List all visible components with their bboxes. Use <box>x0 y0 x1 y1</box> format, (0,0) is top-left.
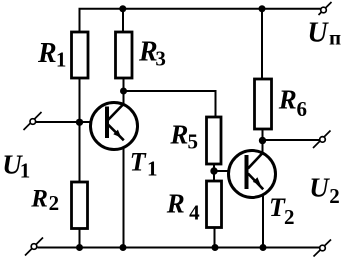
svg-text:2: 2 <box>329 184 340 208</box>
svg-text:3: 3 <box>155 47 166 71</box>
svg-text:5: 5 <box>188 130 199 154</box>
svg-text:T: T <box>130 147 147 176</box>
svg-text:1: 1 <box>147 156 158 180</box>
svg-text:R: R <box>278 85 297 115</box>
svg-text:U: U <box>307 18 329 49</box>
svg-text:1: 1 <box>56 48 67 72</box>
svg-text:6: 6 <box>297 97 308 121</box>
svg-text:R: R <box>169 120 188 150</box>
svg-text:4: 4 <box>189 201 200 225</box>
svg-text:п: п <box>329 26 341 50</box>
svg-text:R: R <box>37 38 57 69</box>
svg-text:R: R <box>166 189 185 219</box>
svg-text:2: 2 <box>284 205 295 229</box>
svg-text:1: 1 <box>20 159 31 183</box>
svg-text:R: R <box>30 186 48 213</box>
svg-text:2: 2 <box>49 191 60 215</box>
svg-text:U: U <box>309 173 330 203</box>
